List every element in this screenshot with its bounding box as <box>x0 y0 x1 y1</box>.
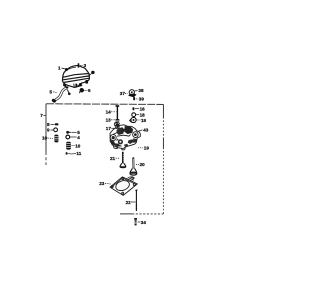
right column: pin + callout 16 <box>133 107 146 112</box>
cover bottom tab <box>74 83 82 88</box>
svg-text:13: 13 <box>106 117 112 122</box>
callout 3 dot <box>88 71 95 77</box>
callout 10 spring <box>42 135 58 143</box>
callout 5 <box>50 89 57 94</box>
svg-text:14: 14 <box>106 109 112 114</box>
bottom screw (34) below box <box>134 218 146 225</box>
svg-text:19: 19 <box>144 146 150 151</box>
carburetor body <box>110 123 141 150</box>
callout 22 <box>126 200 136 205</box>
svg-text:10: 10 <box>75 143 81 148</box>
callout 43 (top right of body) <box>139 127 149 132</box>
left cluster: callout 8 screw <box>47 122 58 127</box>
callout 19 (lower right of body) <box>138 146 149 151</box>
svg-text:39: 39 <box>139 97 145 102</box>
feet <box>113 146 125 150</box>
cover (tank cover) <box>62 66 89 88</box>
part 6 elbow <box>80 88 91 93</box>
dark port center <box>118 139 123 144</box>
svg-text:38: 38 <box>138 88 144 93</box>
svg-text:19: 19 <box>141 118 147 123</box>
dark center-top mass <box>116 127 124 135</box>
svg-text:1: 1 <box>58 66 61 71</box>
svg-text:16: 16 <box>140 107 146 112</box>
mid washer + callout <box>66 135 80 140</box>
callout 23 <box>99 181 110 186</box>
hose clamp pin <box>67 90 69 94</box>
throttle shaft rings (top) <box>114 123 117 126</box>
svg-text:8: 8 <box>47 122 50 127</box>
svg-text:34: 34 <box>141 220 147 225</box>
right boss <box>133 132 138 138</box>
svg-text:18: 18 <box>140 113 146 118</box>
bottom-right dark marks <box>128 139 134 144</box>
big spring + callout <box>66 142 81 150</box>
internal strokes <box>112 131 131 146</box>
svg-text:3: 3 <box>84 63 87 68</box>
dark lever plate top-right <box>124 126 133 134</box>
callout 21 <box>110 156 120 161</box>
hose end grommet <box>51 98 57 103</box>
gasket (23) <box>110 176 137 195</box>
left ear ring <box>110 135 116 141</box>
group box right edge <box>162 104 164 117</box>
svg-text:43: 43 <box>143 127 149 132</box>
intake valve (21) below body <box>120 152 126 168</box>
svg-text:5: 5 <box>50 89 53 94</box>
svg-text:4: 4 <box>77 135 80 140</box>
callout 20 <box>136 162 145 167</box>
callout 17 <box>106 126 114 131</box>
svg-text:10: 10 <box>42 136 48 141</box>
mid cluster: screw + callout <box>66 130 80 135</box>
exhaust valve (20) <box>130 157 137 175</box>
callout 13 <box>106 117 115 122</box>
svg-text:22: 22 <box>126 200 132 205</box>
svg-text:17: 17 <box>106 126 112 131</box>
callout 1 <box>58 66 68 71</box>
callout 14 <box>106 109 117 114</box>
svg-text:9: 9 <box>47 128 50 133</box>
hose (part 5) <box>55 86 68 100</box>
svg-text:23: 23 <box>99 181 105 186</box>
callout 2 screw <box>78 63 87 68</box>
washer + callout 18 <box>132 113 145 118</box>
svg-text:20: 20 <box>140 162 146 167</box>
svg-text:7: 7 <box>40 113 43 118</box>
bracket cluster 37/38/39 above box <box>120 88 145 101</box>
group box top edge <box>46 103 163 106</box>
svg-text:37: 37 <box>120 91 126 96</box>
svg-text:11: 11 <box>76 151 81 156</box>
bottom-left dark wedge <box>110 140 116 145</box>
group box left edge <box>45 104 47 152</box>
svg-text:6: 6 <box>88 88 91 93</box>
long screw (22) <box>135 190 137 211</box>
small screw + callout 11 <box>66 151 82 156</box>
callout 7 <box>40 113 46 118</box>
nut + callout 19 <box>130 117 147 122</box>
svg-text:21: 21 <box>110 156 116 161</box>
callout 9 washer <box>47 128 57 133</box>
group box bottom edge <box>120 213 132 215</box>
needle screw with spring <box>116 106 120 126</box>
